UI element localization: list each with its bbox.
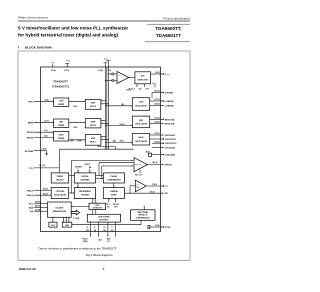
wire mixer MID to buffer [69, 122, 86, 130]
svg-text:Product specification: Product specification [163, 16, 190, 20]
pin SCL left [29, 202, 48, 206]
AGC down arrows [129, 84, 150, 91]
svg-text:MIXER: MIXER [58, 104, 65, 106]
svg-text:CHARGE: CHARGE [110, 190, 119, 193]
svg-text:7: 7 [18, 46, 20, 50]
svg-text:REFERENCE: REFERENCE [79, 191, 91, 193]
svg-text:MIXOUTB: MIXOUTB [165, 124, 175, 126]
svg-text:Fig.1 Block diagram.: Fig.1 Block diagram. [86, 253, 114, 257]
svg-text:(7L,7,6): (7L,7,6) [39, 165, 46, 167]
svg-text:8P1: 8P1 [115, 207, 118, 209]
pin XTAL1 left [27, 189, 52, 193]
svg-text:(11,4): (11,4) [51, 69, 56, 72]
svg-text:MIXOUTA: MIXOUTA [165, 118, 175, 121]
phase comparator A3 [103, 173, 124, 183]
svg-text:(18,12): (18,12) [154, 91, 160, 93]
svg-text:3L8,4: 3L8,4 [126, 88, 131, 91]
svg-text:7 (13): 7 (13) [107, 70, 112, 72]
part number rule [147, 23, 190, 25]
svg-text:(1N,2N): (1N,2N) [35, 202, 42, 204]
svg-text:n.c.: n.c. [51, 62, 55, 64]
svg-text:P0 B: P0 B [51, 225, 56, 227]
svg-text:(7E,6): (7E,6) [152, 184, 157, 186]
svg-text:FDIV/B2: FDIV/B2 [75, 167, 82, 169]
svg-text:DIVIDER: DIVIDER [81, 195, 89, 197]
svg-text:COMPARATOR: COMPARATOR [107, 179, 121, 182]
op-amp U1 AGC comparator [105, 72, 129, 84]
svg-text:9/18,4 →: 9/18,4 → [120, 123, 127, 126]
svg-text:(11): (11) [111, 230, 114, 232]
svg-text:(17,13): (17,13) [154, 99, 160, 101]
svg-text:B4: B4 [89, 166, 91, 169]
pin SENSE left with decoupling symbol [25, 149, 48, 156]
bottom pin stub 2 [94, 222, 99, 237]
svg-text:(15,15): (15,15) [154, 118, 160, 120]
svg-text:BUF C: BUF C [90, 141, 96, 143]
pin FMOUT right [147, 161, 173, 167]
svg-text:(E1,4): (E1,4) [152, 161, 157, 164]
wire W3 to FM buffer [101, 165, 133, 179]
svg-text:HIGH: HIGH [59, 134, 64, 136]
svg-text:(E1,8): (E1,8) [43, 189, 48, 191]
cascade switch box [146, 150, 176, 156]
svg-text:AS: AS [30, 210, 34, 213]
wire op-amp to AGC detector [129, 77, 135, 79]
svg-text:for hybrid terrestrial tuner (: for hybrid terrestrial tuner (digital an… [18, 33, 119, 38]
pin LOADSA right [150, 99, 174, 103]
svg-text:2 (17): 2 (17) [44, 120, 49, 122]
svg-text:MID: MID [139, 120, 143, 122]
svg-text:CCD: CCD [105, 59, 108, 61]
svg-text:3 (1): 3 (1) [44, 130, 48, 132]
svg-text:SELECT: SELECT [56, 180, 64, 182]
svg-text:FMOUT: FMOUT [165, 165, 173, 167]
fractional speed-up compensation box [131, 210, 156, 221]
svg-text:FM/DIV: FM/DIV [57, 176, 64, 178]
pin RFIH2 left [27, 135, 54, 140]
LO buffer triangle [129, 180, 146, 194]
oscillator MID [132, 116, 149, 128]
IC boundary TDA6500TT [41, 67, 161, 232]
wire mixer LOW to buffer [69, 101, 86, 109]
bottom pin stub 1 [86, 222, 91, 237]
svg-text:LOADSA: LOADSA [165, 100, 174, 103]
svg-text:TDA6500TT;: TDA6500TT; [155, 26, 182, 31]
svg-text:SPEED-UP: SPEED-UP [138, 215, 148, 217]
svg-text:QE1: QE1 [113, 141, 117, 143]
mixer LOW [54, 98, 69, 106]
pin TCL left [29, 165, 59, 170]
FM buffer amplifier triangle [134, 158, 147, 177]
wire to oscillator MID [105, 123, 132, 126]
svg-text:4 (14): 4 (14) [98, 69, 103, 72]
svg-text:2S2B: 2S2B [83, 241, 88, 243]
bus wire H0 from rails to divider [59, 149, 134, 150]
svg-text:LTO: LTO [146, 89, 150, 91]
wire A1 to A2 [69, 175, 75, 176]
reference divider B2 [74, 188, 95, 199]
svg-text:OSCHGA2: OSCHGA2 [165, 147, 176, 150]
charge pump B3 [103, 188, 124, 199]
svg-text:8: 8 [94, 227, 95, 229]
bottom pin stub 3 [103, 222, 108, 237]
svg-text:OSCHOUT2: OSCHOUT2 [165, 143, 177, 145]
svg-text:MIXER: MIXER [58, 138, 65, 140]
svg-text:DIGITAL: DIGITAL [81, 175, 89, 178]
svg-text:OSCILLATOR: OSCILLATOR [135, 105, 148, 108]
svg-text:(14,16): (14,16) [154, 121, 160, 124]
svg-text:LOW: LOW [59, 101, 64, 103]
port small box LBB [62, 217, 72, 227]
svg-text:(2T,2E): (2T,2E) [35, 209, 41, 211]
mixer MID [54, 119, 69, 127]
svg-text:QE/ →: QE/ → [121, 104, 127, 106]
svg-text:DIV/SYNTH: DIV/SYNTH [99, 219, 109, 221]
svg-text:RFIM: RFIM [28, 122, 33, 124]
svg-text:P1/FL: P1/FL [165, 227, 171, 229]
svg-text:SCL: SCL [29, 203, 34, 205]
bottom external labels [82, 239, 110, 244]
wire B1 to B2 [69, 192, 75, 193]
svg-text:TOP: TOP [166, 75, 169, 77]
VAGC internal label [152, 83, 156, 88]
svg-text:TDA6500TT: TDA6500TT [53, 80, 68, 84]
sub system dividers box [87, 214, 120, 222]
svg-text:BFW: BFW [78, 140, 82, 142]
wire buffer HIGH lower output snake [98, 140, 126, 150]
svg-text:LBB: LBB [65, 225, 69, 227]
svg-text:RFIH1: RFIH1 [27, 132, 34, 134]
svg-text:(12,3): (12,3) [65, 70, 70, 72]
svg-text:1 (18): 1 (18) [44, 99, 49, 101]
svg-text:RFIL: RFIL [28, 101, 33, 103]
svg-text:LO: LO [165, 186, 168, 188]
port small box P0B [49, 217, 57, 227]
svg-text:BUF B: BUF B [90, 125, 96, 127]
svg-text:MID: MID [59, 122, 63, 124]
svg-text:HIGH: HIGH [139, 137, 144, 139]
svg-text:BLOCK DIAGRAM: BLOCK DIAGRAM [25, 46, 52, 50]
pin SDA left [29, 206, 48, 210]
svg-text:(13,17): (13,17) [154, 133, 160, 135]
svg-text:'W': 'W' [107, 207, 110, 209]
svg-text:BUF: BUF [136, 187, 139, 189]
svg-text:(2N,2E): (2N,2E) [35, 206, 41, 208]
svg-text:AMP: AMP [91, 101, 96, 104]
pin VCOL right [152, 91, 174, 98]
svg-text:(A8): (A8) [76, 217, 80, 220]
buffer LOW [85, 99, 101, 109]
wire mixer HIGH to buffer [69, 139, 86, 142]
svg-text:COMPENSATION: COMPENSATION [136, 216, 150, 219]
svg-text:7: 7 [103, 267, 105, 271]
svg-text:TCL: TCL [29, 168, 34, 170]
svg-text:BF1: BF1 [71, 140, 74, 142]
svg-text:AMP: AMP [91, 120, 96, 123]
svg-text:(E,4): (E,4) [146, 150, 150, 153]
svg-text:OSCILLATOR: OSCILLATOR [135, 123, 148, 126]
block arrow lock detector to transceiver [71, 206, 89, 208]
svg-text:DETECTOR: DETECTOR [138, 80, 149, 82]
I2C-bus transceiver [48, 202, 72, 217]
svg-text:A/G2 →: A/G2 → [120, 140, 127, 143]
svg-text:DETECTOR: DETECTOR [93, 208, 103, 210]
mixer HIGH [54, 131, 69, 141]
svg-text:DIVIDERS: DIVIDERS [81, 180, 91, 182]
DAC square and pin P1 right [148, 225, 171, 229]
svg-text:LOADSB: LOADSB [165, 105, 174, 108]
wire to oscillator LOW [105, 104, 132, 106]
svg-text:1999 Oct 29: 1999 Oct 29 [19, 267, 36, 271]
buffer MID [85, 119, 101, 128]
svg-text:(12,18): (12,18) [154, 141, 160, 143]
svg-text:AGC: AGC [141, 75, 146, 78]
pin OSCH3 right [152, 141, 177, 145]
VCC rail 3 internal [106, 67, 108, 149]
pin CP right from charge pump [124, 191, 168, 195]
buffer HIGH [85, 135, 101, 146]
svg-text:I2C-BUS: I2C-BUS [56, 208, 64, 210]
svg-text:(16,5): (16,5) [42, 149, 47, 151]
wire W2 to FM buffer [98, 162, 133, 176]
svg-text:+: + [118, 75, 120, 77]
pin VCCA top [65, 60, 71, 72]
pin VCCD top rail 2 [104, 58, 111, 149]
svg-text:MIXER: MIXER [58, 125, 65, 127]
svg-text:OSCILLATOR: OSCILLATOR [54, 194, 67, 197]
pin MIXOUTB right [150, 121, 175, 126]
svg-text:MO1: MO1 [74, 106, 78, 108]
bottom bus wire [72, 220, 141, 225]
svg-text:XTAL1: XTAL1 [27, 190, 34, 193]
crystal oscillator B1 [51, 188, 68, 199]
svg-text:(2T): (2T) [86, 230, 90, 232]
svg-text:FIF: FIF [165, 193, 169, 195]
pin RFIM left [28, 120, 54, 124]
svg-text:LOW: LOW [139, 102, 144, 104]
svg-text:W, F1, N: W, F1, N [135, 174, 143, 176]
wire A2 down to B2 [77, 183, 78, 188]
arrow up from fractional box [144, 205, 145, 209]
wire to oscillator HIGH [105, 142, 132, 143]
pin MIXOUTA right [150, 118, 175, 122]
svg-text:BUF A: BUF A [90, 105, 96, 108]
svg-text:CASCADE: CASCADE [165, 154, 176, 157]
rail feeds into buffer LOW [101, 100, 109, 104]
wire A3 down to B3 [113, 183, 114, 188]
lock detector [89, 203, 106, 209]
svg-text:TRANSCEIVER: TRANSCEIVER [53, 210, 67, 213]
bottom pin stub 4 [111, 222, 116, 237]
figure frame [18, 51, 190, 261]
svg-text:The pin numbers in parentheses: The pin numbers in parentheses correspon… [38, 247, 117, 251]
pin OSCH2 right [150, 138, 177, 141]
svg-text:CRYSTAL: CRYSTAL [56, 190, 66, 193]
svg-text:TDA6501TT: TDA6501TT [156, 33, 181, 38]
charge pump bottom stub 2 [113, 198, 120, 208]
svg-text:AMP: AMP [91, 137, 96, 140]
rail feeds into buffer HIGH [101, 136, 109, 140]
wire AGC to VTOP pin [151, 73, 164, 75]
pin LOADSB right [150, 103, 174, 108]
pin AS left [30, 209, 47, 213]
pin OSCH1 right [150, 133, 176, 137]
svg-text:10: 10 [103, 227, 105, 229]
svg-text:(10): (10) [103, 230, 107, 232]
wires B row down to lock detector [92, 199, 96, 204]
pin VCCD top rail 1 [98, 63, 107, 149]
svg-text:1 1: 1 1 [111, 227, 113, 229]
pin XTAL2 left [27, 193, 52, 197]
pin RFIH1 left [27, 130, 54, 134]
svg-text:(E1,9): (E1,9) [43, 193, 48, 195]
svg-text:PUMP: PUMP [111, 195, 117, 197]
oscillator LOW [132, 98, 149, 111]
divider A2 programmable [74, 173, 95, 183]
svg-text:OSCMID: OSCMID [165, 93, 174, 95]
svg-text:QE1: QE1 [98, 239, 102, 241]
svg-text:FRACTIONAL: FRACTIONAL [137, 211, 148, 214]
pin RFIL left [28, 99, 54, 103]
svg-text:SDA: SDA [29, 206, 34, 209]
svg-text:(16,14): (16,14) [154, 103, 160, 106]
svg-text:4 (2): 4 (2) [44, 135, 48, 138]
rail feeds into buffer MID [101, 120, 109, 124]
svg-text:PHASE: PHASE [111, 175, 118, 178]
input circle - [112, 79, 114, 81]
svg-text:F2: F2 [108, 241, 110, 243]
svg-text:XTAL2: XTAL2 [27, 194, 34, 197]
AGC detector box [135, 72, 151, 84]
svg-text:OSCHOUT1: OSCHOUT1 [165, 139, 177, 141]
svg-text:SSTLAB: SSTLAB [25, 150, 34, 153]
svg-text:(1E,6): (1E,6) [150, 191, 155, 193]
svg-text:LO: LO [136, 184, 139, 186]
svg-text:5 V mixer/oscillator and low n: 5 V mixer/oscillator and low noise PLL s… [18, 26, 128, 31]
svg-text:RFIH2: RFIH2 [27, 138, 34, 140]
svg-text:4: 4 [87, 226, 88, 229]
svg-text:CCA: CCA [67, 60, 70, 63]
wire A2 to A3 [96, 175, 104, 179]
wire down to divider A1 [59, 149, 60, 173]
pin LO right [146, 184, 168, 188]
input circle + [112, 73, 114, 75]
charge pump bottom stub 1 [106, 198, 111, 208]
MOD divider labels and arrows [75, 164, 91, 173]
svg-text:SUB SYSTEM: SUB SYSTEM [98, 217, 110, 219]
svg-text:2L4: 2L4 [139, 88, 142, 91]
oscillator HIGH [132, 134, 149, 146]
pin n.c. top [51, 62, 56, 72]
svg-text:MO2: MO2 [74, 127, 78, 129]
svg-text:OSCILLATOR: OSCILLATOR [135, 140, 148, 143]
wire AB into transceiver area [73, 217, 79, 221]
svg-text:(TDA6501TT): (TDA6501TT) [52, 85, 69, 89]
header rule [18, 20, 190, 22]
wires lock detector down to sub system [93, 210, 96, 215]
svg-text:Philips Semiconductors: Philips Semiconductors [18, 15, 49, 19]
wire W1 to FM buffer [71, 160, 134, 194]
divider A1 [51, 173, 68, 183]
svg-text:(28,2): (28,2) [155, 72, 160, 74]
svg-text:OSCHGA1: OSCHGA1 [165, 134, 176, 137]
pin OSCHB right [152, 147, 176, 150]
